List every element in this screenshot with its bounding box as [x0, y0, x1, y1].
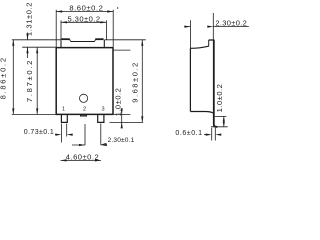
dim 2.30 pitch arrows — [79, 144, 107, 146]
tab left edge — [60, 40, 62, 47]
tab left corner ear — [61, 38, 70, 40]
dim 0.6 leader — [204, 134, 207, 136]
tab right edge — [103, 40, 105, 47]
svg-text:7.87±0.2: 7.87±0.2 — [25, 59, 34, 102]
svg-text:2: 2 — [83, 107, 86, 113]
dim 5.30 arrows — [61, 21, 106, 23]
svg-text:3: 3 — [101, 107, 104, 113]
ejector pin circle — [80, 94, 88, 102]
dim 2.30 pitch line segments — [72, 143, 107, 145]
dim 7.87 arrows — [36, 47, 38, 114]
dim 0.6 arrows — [206, 134, 222, 136]
extension line tab-top level left — [12, 39, 61, 41]
dim 1.31 arrow shafts — [27, 33, 29, 59]
dim 8.60 line — [56, 11, 113, 13]
extension line tab-top level right — [105, 39, 146, 41]
svg-text:5.30±0.2: 5.30±0.2 — [67, 14, 100, 23]
dim 0.6 extension lines — [212, 128, 216, 141]
dim 1.0 side arrows — [223, 116, 225, 126]
dim 8.60 arrows — [56, 10, 113, 12]
dim 1.0 side extension lines — [211, 116, 228, 126]
extension line body-bottom left — [12, 113, 56, 115]
projection line body-top right with end tick — [114, 49, 131, 51]
dim 2.30 side arrows — [184, 26, 213, 28]
lead 3 — [98, 115, 104, 122]
svg-text:8.86±0.2: 8.86±0.2 — [0, 56, 8, 99]
svg-text:9.68±0.2: 9.68±0.2 — [130, 61, 139, 103]
dim 8.60 extension lines — [56, 10, 113, 47]
svg-text:8.60±0.2: 8.60±0.2 — [69, 4, 103, 13]
dim 2.30 side line segments — [184, 26, 249, 28]
dim 1.0 front arrows — [121, 108, 123, 128]
svg-text:1.0±0.2: 1.0±0.2 — [215, 84, 224, 113]
side view tab top edge — [209, 39, 215, 41]
svg-text:0.73±0.1: 0.73±0.1 — [24, 129, 54, 136]
lead 2 (cut short) — [81, 115, 87, 116]
side view metal tab and lead with foot — [214, 40, 218, 127]
body outline front view — [56, 48, 114, 115]
dim 8.86 arrows — [12, 40, 14, 115]
svg-text:1.31±0.2: 1.31±0.2 — [25, 2, 34, 36]
dim 2.30 pitch extension lines — [85, 124, 101, 146]
lead 1 — [61, 115, 67, 122]
tab top edge between ears — [71, 41, 95, 43]
svg-text:0.6±0.1: 0.6±0.1 — [175, 130, 202, 137]
svg-text:4.60±0.2: 4.60±0.2 — [66, 152, 100, 161]
dim 1.0 front line — [121, 109, 123, 127]
dim 0.73 arrows — [55, 134, 72, 136]
dim 1.31 arrows — [26, 34, 28, 53]
svg-text:2.30±0.2: 2.30±0.2 — [215, 19, 247, 28]
dim 4.60 line — [61, 159, 102, 161]
tab right corner ear — [94, 40, 97, 42]
svg-text:1.0±0.2: 1.0±0.2 — [113, 88, 122, 117]
svg-text:1: 1 — [62, 107, 65, 113]
dim 9.68 arrows — [141, 40, 143, 123]
extension line lead-bottom right — [110, 121, 144, 123]
dim 4.60 arrows — [61, 159, 102, 161]
dim 5.30 extension lines — [61, 20, 106, 39]
dim 0.73 leader — [55, 134, 57, 136]
stray mark — [117, 7, 118, 9]
dim 8.86 line — [12, 40, 14, 115]
dim 2.30 side extension lines — [190, 13, 213, 48]
dim 0.73 extension lines — [61, 124, 66, 143]
svg-text:2.30±0.1: 2.30±0.1 — [108, 137, 135, 144]
side view mold outline — [190, 46, 213, 113]
extension line body-top level left — [22, 46, 55, 48]
extension line body-bottom right — [114, 113, 131, 115]
side view tab step — [208, 40, 210, 46]
dim 1.0 side line — [223, 116, 225, 126]
dim 7.87 line — [36, 47, 38, 114]
dim 9.68 line — [141, 40, 143, 123]
dim 5.30 line — [61, 21, 106, 23]
